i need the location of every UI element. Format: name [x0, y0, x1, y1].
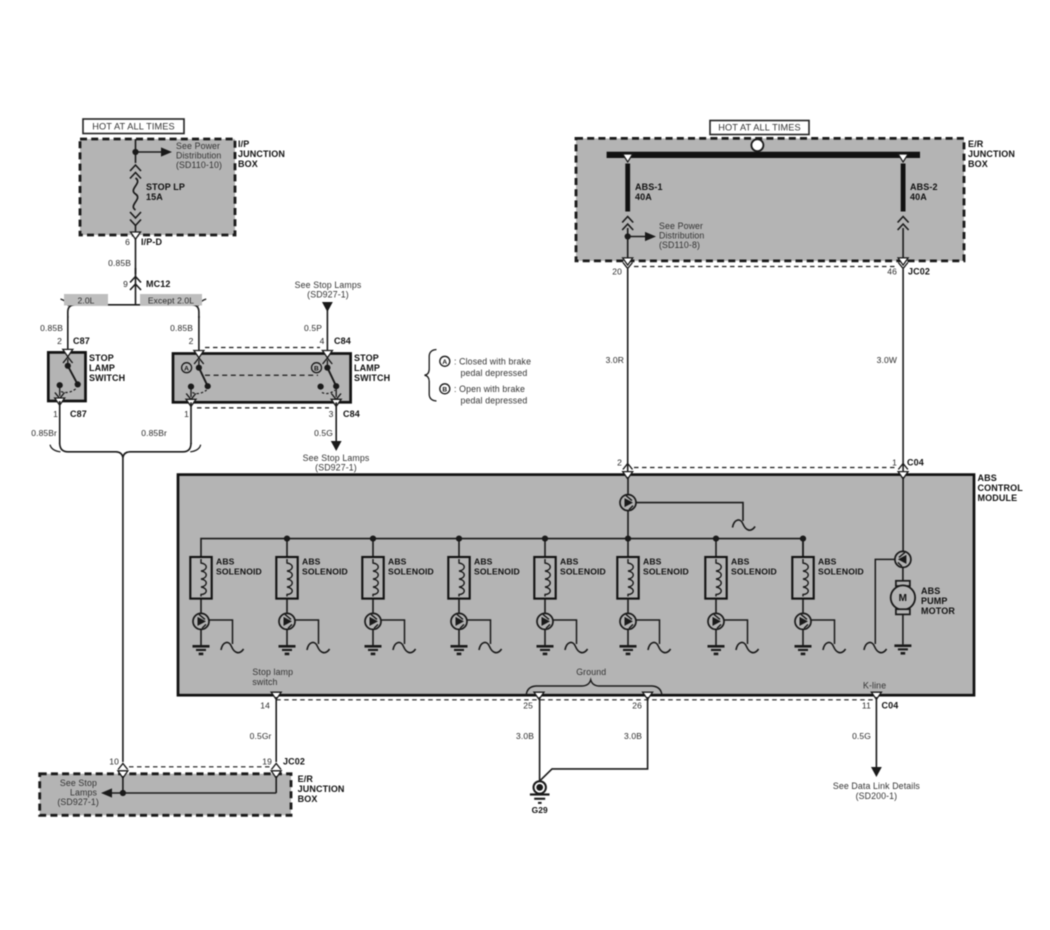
- svg-text:0.85Br: 0.85Br: [31, 428, 57, 438]
- svg-text:A: A: [442, 359, 447, 366]
- svg-text:3.0B: 3.0B: [624, 731, 642, 741]
- svg-text:Distribution: Distribution: [176, 151, 221, 161]
- svg-text:K-line: K-line: [863, 681, 886, 691]
- svg-text:11: 11: [862, 701, 871, 711]
- wire solenoid 7 to driver: [715, 599, 717, 614]
- ABS solenoid 2: [286, 539, 288, 557]
- svg-text:LAMP: LAMP: [354, 363, 380, 373]
- svg-text:C84: C84: [343, 409, 360, 419]
- svg-text:ABS-1: ABS-1: [635, 182, 663, 192]
- svg-text:MODULE: MODULE: [978, 493, 1018, 503]
- connector chevrons below ABS-2: [898, 217, 909, 223]
- wire driver 6 to coil mark: [636, 620, 660, 644]
- svg-text:4: 4: [320, 336, 325, 346]
- wire 0.5G to stop lamps: [335, 402, 337, 441]
- wire motor to ground: [902, 614, 904, 644]
- svg-text:0.85B: 0.85B: [170, 323, 193, 333]
- connector notch pin 25: [534, 692, 544, 699]
- svg-text:(SD927-1): (SD927-1): [307, 290, 349, 300]
- svg-text:SWITCH: SWITCH: [354, 373, 390, 383]
- ABS solenoid 8: [802, 539, 804, 557]
- connector notch pin4 C84: [322, 351, 332, 358]
- connector MC12 pin 9: [130, 277, 141, 283]
- svg-text:SWITCH: SWITCH: [89, 373, 125, 383]
- svg-text:ABS: ABS: [978, 473, 997, 483]
- I/P junction box: [80, 139, 235, 235]
- wire Except 2.0L branch 0.85B: [198, 316, 200, 353]
- svg-text:0.5Gr: 0.5Gr: [250, 731, 272, 741]
- wire 3.0R: [627, 269, 629, 475]
- connector notch I/P-D: [131, 232, 141, 239]
- ABS solenoid 4: [458, 539, 460, 557]
- svg-text:M: M: [899, 593, 907, 604]
- wire Q2 to motor: [902, 567, 904, 581]
- node: bus junction 7: [713, 536, 719, 542]
- connector notch pin 19 JC02: [271, 771, 281, 778]
- wire 2.0L branch 0.85B: [67, 316, 69, 352]
- wire driver 4 to ground: [458, 629, 460, 645]
- svg-text:(SD200-1): (SD200-1): [856, 791, 898, 801]
- coil continuation mark (supply): [733, 520, 756, 530]
- ground (solenoid 6): [620, 645, 637, 648]
- transistor solenoid driver 3: [365, 613, 381, 629]
- motor M (ABS pump motor): [896, 581, 910, 586]
- coil continuation mark 1: [221, 642, 244, 652]
- svg-text:ABS: ABS: [560, 557, 579, 567]
- svg-text:HOT AT ALL TIMES: HOT AT ALL TIMES: [718, 123, 801, 133]
- wire Q1 collector to coil mark: [636, 503, 743, 521]
- transistor solenoid driver 5: [537, 613, 553, 629]
- svg-text:LAMP: LAMP: [89, 363, 115, 373]
- svg-text:JC02: JC02: [908, 267, 930, 277]
- coil continuation mark 3: [393, 642, 416, 652]
- svg-text:14: 14: [260, 701, 270, 711]
- connector notch pin 20: [623, 258, 633, 265]
- coil continuation mark 6: [648, 642, 671, 652]
- ABS solenoid 3: [372, 539, 374, 557]
- ABS control module box: [178, 475, 974, 696]
- wire 3.0B pin 26: [541, 697, 648, 780]
- svg-text:15A: 15A: [146, 192, 163, 202]
- svg-text:E/R: E/R: [298, 774, 314, 784]
- svg-text:pedal depressed: pedal depressed: [461, 368, 528, 378]
- wire from B+ into I/P box: [135, 139, 137, 163]
- wire driver 4 to coil mark: [467, 620, 491, 644]
- ground (solenoid 3): [365, 645, 382, 648]
- svg-text:ABS: ABS: [921, 586, 940, 596]
- connector line JC02 bottom: [129, 766, 270, 768]
- connector line C04 bottom: [276, 699, 876, 701]
- svg-text:CONTROL: CONTROL: [978, 483, 1024, 493]
- connector notch pin 11 C04: [871, 692, 881, 699]
- svg-text:3.0B: 3.0B: [516, 731, 534, 741]
- transistor solenoid driver 8: [795, 613, 811, 629]
- node: power junction in I/P box: [132, 149, 138, 155]
- svg-text:(SD927-1): (SD927-1): [57, 797, 99, 807]
- wire 3.0W: [902, 269, 904, 475]
- wire driver 5 to coil mark: [553, 620, 577, 644]
- dashed link between switch halves: [205, 374, 318, 376]
- svg-text:A: A: [184, 366, 189, 373]
- transistor Q1 (solenoid supply driver): [620, 495, 636, 511]
- wire to see stop lamps: [104, 792, 276, 794]
- svg-text:Distribution: Distribution: [659, 231, 704, 241]
- wire driver 8 to coil mark: [811, 620, 835, 644]
- svg-text:9: 9: [123, 279, 128, 289]
- switch A contacts: [182, 363, 192, 373]
- transistor Q2 (pump motor driver): [895, 551, 911, 567]
- svg-text:ABS: ABS: [818, 557, 837, 567]
- connector notch pin 10: [118, 771, 128, 778]
- wire pin19 inside box: [275, 776, 277, 793]
- stop lamp switch (2.0L) box: [48, 352, 85, 401]
- svg-text:ABS: ABS: [643, 557, 662, 567]
- svg-text:PUMP: PUMP: [921, 596, 947, 606]
- svg-text:(SD110-10): (SD110-10): [176, 160, 222, 170]
- wire driver 6 to ground: [627, 629, 629, 645]
- connector notch pin1 C84: [186, 399, 196, 406]
- tag Except 2.0L: [140, 294, 202, 306]
- connector chevrons below ABS-1: [622, 217, 633, 223]
- svg-text:C87: C87: [70, 409, 87, 419]
- connector notch pin 1 module: [898, 472, 908, 479]
- svg-text:See Power: See Power: [176, 141, 220, 151]
- svg-text:MOTOR: MOTOR: [921, 606, 955, 616]
- coil continuation mark 8: [823, 642, 846, 652]
- wire merge (brace join): [60, 443, 191, 458]
- ground (solenoid 2): [279, 645, 296, 648]
- connector notch pin 26: [643, 692, 653, 699]
- wire 0.85Br (right): [190, 402, 192, 444]
- svg-text:3: 3: [329, 409, 334, 419]
- svg-text:1: 1: [53, 409, 58, 419]
- wire 3.0B pin 25: [539, 697, 541, 781]
- ground (solenoid 5): [537, 645, 554, 648]
- wire ABS-1 to pin 20: [627, 228, 629, 261]
- wire driver 3 to coil mark: [381, 620, 405, 644]
- transistor solenoid driver 2: [279, 613, 295, 629]
- svg-text:2: 2: [189, 336, 194, 346]
- svg-text:C04: C04: [907, 458, 924, 468]
- wire pin2 into module: [627, 477, 629, 495]
- wire driver 7 to ground: [715, 629, 717, 645]
- svg-text:See Stop Lamps: See Stop Lamps: [303, 453, 370, 463]
- svg-text:0.5G: 0.5G: [314, 428, 333, 438]
- svg-text:G29: G29: [532, 805, 548, 815]
- solenoid supply bus: [201, 539, 803, 557]
- bus notch ABS-2: [898, 154, 908, 162]
- ground (solenoid 4): [451, 645, 468, 648]
- svg-text:pedal depressed: pedal depressed: [461, 396, 528, 406]
- wire solenoid 3 to driver: [372, 599, 374, 614]
- svg-text:: Open with brake: : Open with brake: [454, 384, 525, 394]
- svg-text:ABS: ABS: [302, 557, 321, 567]
- svg-text:1: 1: [184, 409, 189, 419]
- svg-text:I/P: I/P: [238, 139, 249, 149]
- svg-text:See Data Link Details: See Data Link Details: [833, 781, 921, 791]
- node: bus junction 3: [370, 536, 376, 542]
- wire to power distribution arrow: [136, 151, 162, 153]
- node: bus junction 8: [800, 536, 806, 542]
- svg-text:0.5P: 0.5P: [304, 323, 322, 333]
- svg-text:Stop lamp: Stop lamp: [252, 667, 293, 677]
- ABS solenoid 5: [544, 539, 546, 557]
- connector line C84 bottom: [197, 407, 329, 409]
- svg-text:ABS: ABS: [474, 557, 493, 567]
- svg-text:Lamps: Lamps: [70, 788, 97, 798]
- svg-text:(SD110-8): (SD110-8): [659, 240, 700, 250]
- wire driver 1 to coil mark: [209, 620, 233, 644]
- stop lamp switch (except 2.0L) box: [173, 354, 351, 403]
- wire driver 3 to ground: [372, 629, 374, 645]
- ground (pump motor): [894, 644, 911, 647]
- svg-text:MC12: MC12: [146, 279, 171, 289]
- svg-text:10: 10: [109, 757, 119, 767]
- connector notch pin2 C87: [63, 349, 73, 356]
- svg-text:SOLENOID: SOLENOID: [474, 567, 520, 577]
- wire to E/R junction box pin 10: [122, 458, 124, 763]
- svg-text:JUNCTION: JUNCTION: [238, 149, 285, 159]
- ground (solenoid 1): [193, 645, 210, 648]
- wire pin10 inside box: [122, 776, 124, 793]
- fuse ABS-2 40A: [901, 164, 906, 212]
- fuse STOP LP 15A: [130, 165, 141, 171]
- svg-text:26: 26: [632, 701, 642, 711]
- legend circled A: closed with brake pedal depressed: [440, 356, 450, 366]
- svg-text:2.0L: 2.0L: [77, 295, 94, 305]
- svg-text:C04: C04: [882, 701, 899, 711]
- wire 0.5Gr pin14 to JC02 pin19: [275, 697, 277, 762]
- wire split to 2.0L / Except 2.0L branches: [68, 305, 199, 318]
- label HOT AT ALL TIMES (right): [710, 121, 809, 135]
- connector notch pin 14: [271, 692, 281, 699]
- transistor solenoid driver 1: [193, 613, 209, 629]
- svg-text:(SD927-1): (SD927-1): [315, 463, 357, 473]
- svg-text:ABS-2: ABS-2: [910, 182, 938, 192]
- svg-text:ABS: ABS: [388, 557, 407, 567]
- svg-text:I/P-D: I/P-D: [141, 237, 162, 247]
- svg-text:2: 2: [57, 336, 62, 346]
- transistor solenoid driver 6: [620, 613, 636, 629]
- connector notch pin 46 JC02: [898, 258, 908, 265]
- transistor solenoid driver 7: [708, 613, 724, 629]
- svg-text:See Power: See Power: [659, 221, 703, 231]
- svg-text:40A: 40A: [910, 192, 927, 202]
- wire ABS-2 to pin 46: [902, 228, 904, 261]
- svg-text:ABS: ABS: [216, 557, 235, 567]
- svg-text:JUNCTION: JUNCTION: [968, 149, 1015, 159]
- svg-text:See Stop Lamps: See Stop Lamps: [295, 280, 362, 290]
- svg-text:Ground: Ground: [576, 667, 606, 677]
- ground (solenoid 7): [708, 645, 725, 648]
- svg-text:BOX: BOX: [298, 794, 318, 804]
- svg-text:HOT AT ALL TIMES: HOT AT ALL TIMES: [92, 122, 175, 132]
- label HOT AT ALL TIMES (left): [83, 119, 184, 134]
- coil continuation mark 2: [307, 642, 330, 652]
- ground (solenoid 8): [795, 645, 812, 648]
- ABS solenoid 1: [190, 557, 211, 599]
- svg-text:E/R: E/R: [968, 139, 984, 149]
- node: bus junction 5: [542, 536, 548, 542]
- connector line JC02 top: [634, 266, 896, 268]
- svg-text:SOLENOID: SOLENOID: [731, 567, 777, 577]
- svg-text:3.0W: 3.0W: [877, 355, 897, 365]
- svg-text:BOX: BOX: [238, 159, 258, 169]
- wire driver 1 to ground: [200, 629, 202, 645]
- svg-text:0.85B: 0.85B: [108, 258, 131, 268]
- node: bus junction 4: [456, 536, 462, 542]
- wire MC12 to split: [135, 268, 137, 304]
- power bus bar: [607, 152, 920, 158]
- svg-text:STOP: STOP: [354, 353, 379, 363]
- svg-text:See Stop: See Stop: [60, 778, 97, 788]
- node: power distribution tap: [625, 233, 631, 239]
- svg-text:20: 20: [612, 267, 622, 277]
- ABS solenoid 6: [627, 539, 629, 557]
- node B+ on bus: [751, 139, 763, 151]
- svg-text:3.0R: 3.0R: [606, 355, 624, 365]
- wire solenoid 8 to driver: [802, 599, 804, 614]
- svg-text:SOLENOID: SOLENOID: [216, 567, 262, 577]
- tag 2.0L: [64, 294, 108, 306]
- fuse ABS-1 40A: [625, 164, 630, 212]
- E/R junction box (top): [576, 138, 964, 261]
- wire solenoid 4 to driver: [458, 599, 460, 614]
- svg-text:SOLENOID: SOLENOID: [302, 567, 348, 577]
- svg-text:2: 2: [617, 458, 622, 468]
- connector line C84 top: [205, 347, 320, 349]
- svg-text:SOLENOID: SOLENOID: [388, 567, 434, 577]
- wire Q2 to coil mark: [875, 559, 895, 644]
- svg-text:switch: switch: [252, 677, 277, 687]
- coil continuation mark (pump): [864, 642, 887, 652]
- svg-text:Except 2.0L: Except 2.0L: [148, 295, 194, 305]
- svg-text:0.85B: 0.85B: [40, 323, 63, 333]
- wire pin1 into module: [902, 477, 904, 551]
- node: bus junction 2: [284, 536, 290, 542]
- wire driver 2 to coil mark: [295, 620, 319, 644]
- arrow to see stop lamps: [101, 788, 112, 797]
- node: bus junction 6: [625, 536, 631, 542]
- svg-text:JC02: JC02: [283, 757, 305, 767]
- wire solenoid 2 to driver: [286, 599, 288, 614]
- wire I/P box exit pin 6: [135, 226, 137, 275]
- svg-text:SOLENOID: SOLENOID: [818, 567, 864, 577]
- svg-text:1: 1: [892, 458, 897, 468]
- transistor solenoid driver 4: [451, 613, 467, 629]
- switch B contacts: [312, 363, 322, 373]
- svg-text:C87: C87: [73, 336, 90, 346]
- svg-text:JUNCTION: JUNCTION: [298, 784, 345, 794]
- svg-text:SOLENOID: SOLENOID: [643, 567, 689, 577]
- connector notch pin 2 module: [623, 472, 633, 479]
- coil continuation mark 5: [565, 642, 588, 652]
- svg-text:B: B: [314, 366, 319, 373]
- wire solenoid 6 to driver: [627, 599, 629, 614]
- arrow to power distribution note: [628, 236, 645, 238]
- connector notch pin2 C84: [194, 351, 204, 358]
- connector notch pin1 C87: [55, 398, 65, 405]
- svg-text:19: 19: [262, 757, 272, 767]
- wire driver 8 to ground: [802, 629, 804, 645]
- bus notch ABS-1: [623, 154, 633, 162]
- svg-text:STOP: STOP: [89, 353, 114, 363]
- svg-text:: Closed with brake: : Closed with brake: [454, 357, 531, 367]
- svg-text:0.5G: 0.5G: [852, 731, 871, 741]
- wire solenoid 1 to driver: [200, 599, 202, 614]
- coil continuation mark 7: [736, 642, 759, 652]
- wire driver 2 to ground: [286, 629, 288, 645]
- E/R junction box (bottom): [40, 774, 291, 816]
- wire Q1 to solenoid bus: [627, 511, 629, 539]
- svg-text:40A: 40A: [635, 192, 652, 202]
- svg-text:B: B: [442, 387, 447, 394]
- wire 0.5P: [326, 310, 328, 353]
- svg-text:SOLENOID: SOLENOID: [560, 567, 606, 577]
- svg-text:ABS: ABS: [731, 557, 750, 567]
- wire 0.85Br (left): [59, 401, 61, 444]
- svg-text:6: 6: [125, 237, 130, 247]
- wire 0.5G K-line: [875, 697, 877, 767]
- coil continuation mark 4: [479, 642, 502, 652]
- wire solenoid 5 to driver: [544, 599, 546, 614]
- legend circled B: open with brake pedal depressed: [440, 384, 450, 394]
- node: stop lamp join: [120, 790, 126, 796]
- ABS solenoid 7: [715, 539, 717, 557]
- connector notch pin3 C84: [331, 399, 341, 406]
- wire driver 5 to ground: [544, 629, 546, 645]
- arrow from see stop lamps: [322, 302, 333, 312]
- switch contacts (2.0L): [63, 357, 73, 363]
- legend brace: [425, 350, 437, 402]
- wire driver 7 to coil mark: [724, 620, 748, 644]
- svg-text:46: 46: [887, 267, 897, 277]
- svg-text:0.85Br: 0.85Br: [141, 428, 167, 438]
- svg-text:BOX: BOX: [968, 159, 988, 169]
- svg-text:STOP LP: STOP LP: [146, 182, 185, 192]
- svg-text:C84: C84: [334, 336, 351, 346]
- svg-text:25: 25: [523, 701, 533, 711]
- ground G29: [534, 781, 546, 793]
